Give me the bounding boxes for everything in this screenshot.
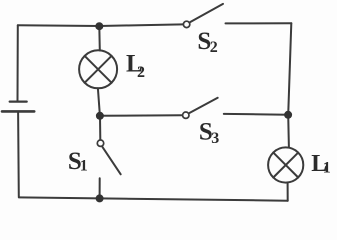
svg-text:2: 2 — [210, 39, 218, 56]
svg-text:3: 3 — [211, 130, 219, 147]
svg-text:1: 1 — [323, 159, 331, 176]
svg-text:1: 1 — [80, 157, 88, 174]
svg-text:2: 2 — [137, 64, 145, 81]
